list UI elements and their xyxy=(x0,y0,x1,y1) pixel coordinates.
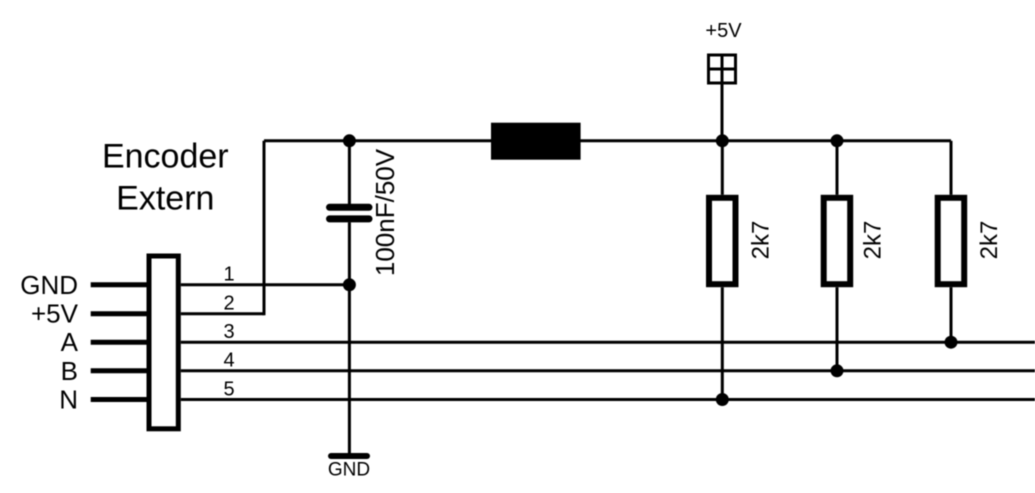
svg-text:5: 5 xyxy=(224,378,235,400)
svg-text:1: 1 xyxy=(224,264,235,286)
wire R1 bottom lead to N wire xyxy=(721,287,724,399)
wire pin1 to capacitor ground node xyxy=(181,283,350,286)
wire R2 bottom lead to B wire xyxy=(836,287,839,371)
svg-text:2: 2 xyxy=(224,293,235,315)
wire pin2 horizontal xyxy=(181,312,264,315)
wire signal A (pin3) xyxy=(181,341,1035,344)
power symbol +5V xyxy=(709,55,736,83)
connector pin stub +5V xyxy=(91,311,147,316)
capacitor C1 top lead xyxy=(348,141,351,204)
wire pin2 vertical riser xyxy=(263,141,266,315)
junction dot rail/R1/+5V xyxy=(716,134,729,147)
connector pin stub GND xyxy=(91,282,147,287)
junction dot R3/A wire xyxy=(945,336,958,349)
junction dot pin1/capacitor ground xyxy=(343,278,356,291)
junction dot R1/N wire xyxy=(716,393,729,406)
resistor R2 body xyxy=(824,198,851,284)
svg-text:B: B xyxy=(61,356,78,386)
capacitor C1 bottom lead to ground xyxy=(348,222,351,453)
svg-text:N: N xyxy=(59,385,78,415)
ground symbol bar xyxy=(331,453,367,459)
svg-text:4: 4 xyxy=(224,350,235,372)
svg-text:GND: GND xyxy=(20,270,78,300)
wire R2 top lead xyxy=(836,141,839,195)
junction dot rail/capacitor top xyxy=(343,134,356,147)
resistor R3 body xyxy=(938,198,965,284)
svg-text:Encoder: Encoder xyxy=(102,138,229,176)
svg-text:GND: GND xyxy=(328,460,370,481)
svg-text:2k7: 2k7 xyxy=(748,221,775,260)
connector pin stub A xyxy=(91,340,147,345)
connector pin stub B xyxy=(91,368,147,373)
junction dot R2/B wire xyxy=(831,364,844,377)
connector J1 body xyxy=(149,256,178,429)
junction dot rail/R2 xyxy=(831,134,844,147)
svg-text:3: 3 xyxy=(224,321,235,343)
svg-text:Extern: Extern xyxy=(116,179,214,217)
svg-text:2k7: 2k7 xyxy=(860,221,887,260)
wire +5V symbol stem xyxy=(721,83,724,141)
wire R3 bottom lead to A wire xyxy=(950,287,953,342)
ferrite bead L1 xyxy=(491,123,581,160)
wire signal N (pin5) xyxy=(181,398,1035,401)
svg-text:100nF/50V: 100nF/50V xyxy=(370,148,400,276)
svg-text:2k7: 2k7 xyxy=(976,221,1003,260)
resistor R1 body xyxy=(709,198,736,284)
wire signal B (pin4) xyxy=(181,369,1035,372)
wire rail right drop to R3 xyxy=(950,141,953,195)
wire +5V rail xyxy=(264,139,951,142)
svg-text:A: A xyxy=(61,327,79,357)
svg-text:+5V: +5V xyxy=(31,299,79,329)
wire R1 top lead xyxy=(721,141,724,195)
capacitor C1 plates xyxy=(330,207,370,219)
connector pin stub N xyxy=(91,397,147,402)
svg-text:+5V: +5V xyxy=(705,20,742,42)
